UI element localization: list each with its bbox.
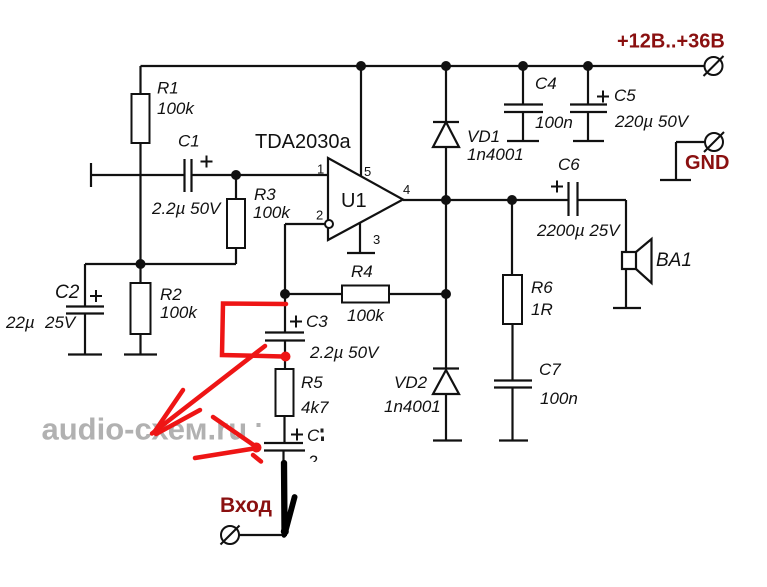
- svg-text:C4: C4: [535, 74, 557, 93]
- svg-text:C2: C2: [55, 282, 80, 303]
- svg-text:100k: 100k: [347, 306, 385, 325]
- svg-text:+12В..+36В: +12В..+36В: [617, 31, 725, 53]
- svg-text:U1: U1: [341, 190, 367, 212]
- svg-text:C6: C6: [558, 155, 580, 174]
- svg-text:R5: R5: [301, 373, 323, 392]
- svg-text:BA1: BA1: [656, 250, 692, 271]
- svg-text:TDA2030a: TDA2030a: [255, 131, 351, 153]
- svg-text:1R: 1R: [531, 300, 553, 319]
- svg-text:1n4001: 1n4001: [384, 397, 441, 416]
- svg-text:2200µ 25V: 2200µ 25V: [536, 221, 621, 240]
- svg-text:VD2: VD2: [394, 373, 428, 392]
- svg-text:100k: 100k: [253, 203, 291, 222]
- svg-text:4: 4: [403, 182, 410, 197]
- svg-text:1n4001: 1n4001: [467, 145, 524, 164]
- svg-text:5: 5: [364, 164, 371, 179]
- svg-text:C: C: [307, 426, 320, 445]
- svg-text:C5: C5: [614, 86, 636, 105]
- svg-text:220µ 50V: 220µ 50V: [614, 112, 690, 131]
- svg-text:100k: 100k: [160, 303, 198, 322]
- svg-text:25V: 25V: [44, 313, 77, 332]
- svg-text:R1: R1: [157, 79, 179, 98]
- svg-text:100k: 100k: [157, 99, 195, 118]
- svg-text:C7: C7: [539, 360, 561, 379]
- svg-text:R4: R4: [351, 262, 373, 281]
- svg-text:22µ: 22µ: [5, 313, 35, 332]
- svg-text:2.2µ 50V: 2.2µ 50V: [309, 343, 380, 362]
- svg-text:100n: 100n: [540, 389, 578, 408]
- svg-text:2: 2: [316, 208, 323, 223]
- svg-text:C3: C3: [306, 312, 328, 331]
- svg-text:100n: 100n: [535, 113, 573, 132]
- svg-text:R3: R3: [254, 185, 276, 204]
- svg-text:R2: R2: [160, 285, 182, 304]
- svg-text:C1: C1: [178, 132, 200, 151]
- svg-text:4k7: 4k7: [301, 398, 329, 417]
- svg-text:R6: R6: [531, 278, 553, 297]
- svg-text:3: 3: [373, 232, 380, 247]
- svg-text:Вход: Вход: [220, 494, 272, 517]
- svg-text:VD1: VD1: [467, 127, 500, 146]
- svg-text:1: 1: [317, 162, 324, 177]
- svg-text:2.2µ 50V: 2.2µ 50V: [151, 199, 222, 218]
- svg-text:GND: GND: [685, 152, 729, 174]
